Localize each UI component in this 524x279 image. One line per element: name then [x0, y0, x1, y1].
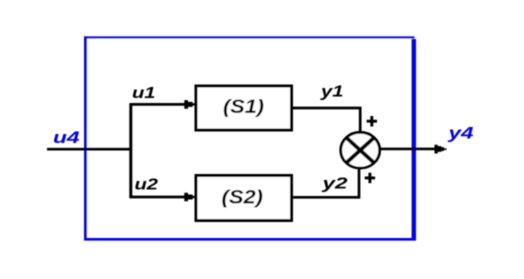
svg-text:(S2): (S2): [222, 187, 264, 208]
wire y4 output: [381, 148, 436, 151]
plus sign top: [367, 116, 377, 127]
svg-text:u2: u2: [135, 176, 159, 193]
arrowhead into S1: [184, 100, 195, 109]
block S2: [196, 176, 292, 221]
arrowhead into S2: [184, 193, 195, 202]
svg-text:(S1): (S1): [223, 97, 264, 118]
svg-text:u1: u1: [132, 85, 156, 102]
svg-text:y2: y2: [321, 176, 348, 193]
summing junction X: [347, 138, 373, 162]
system boundary box (blue) top edge: [84, 36, 415, 38]
block S1: [196, 86, 292, 130]
summing junction circle: [341, 132, 380, 168]
wire branch vertical: [129, 103, 132, 198]
system boundary box (blue) left edge: [84, 36, 87, 240]
system boundary box (blue) bottom edge: [84, 238, 416, 241]
wire u2: [130, 196, 185, 199]
wire y2 from S2 to summer: [293, 169, 359, 198]
plus sign bottom: [365, 173, 375, 183]
wire u4 input: [47, 148, 131, 151]
wire y1 from S1 to summer: [293, 108, 360, 132]
svg-text:y1: y1: [320, 83, 344, 100]
svg-text:u4: u4: [53, 128, 80, 147]
svg-text:y4: y4: [447, 123, 474, 142]
wire u1: [130, 103, 185, 106]
system boundary box (blue) right edge: [412, 39, 416, 241]
arrowhead y4: [435, 145, 447, 154]
